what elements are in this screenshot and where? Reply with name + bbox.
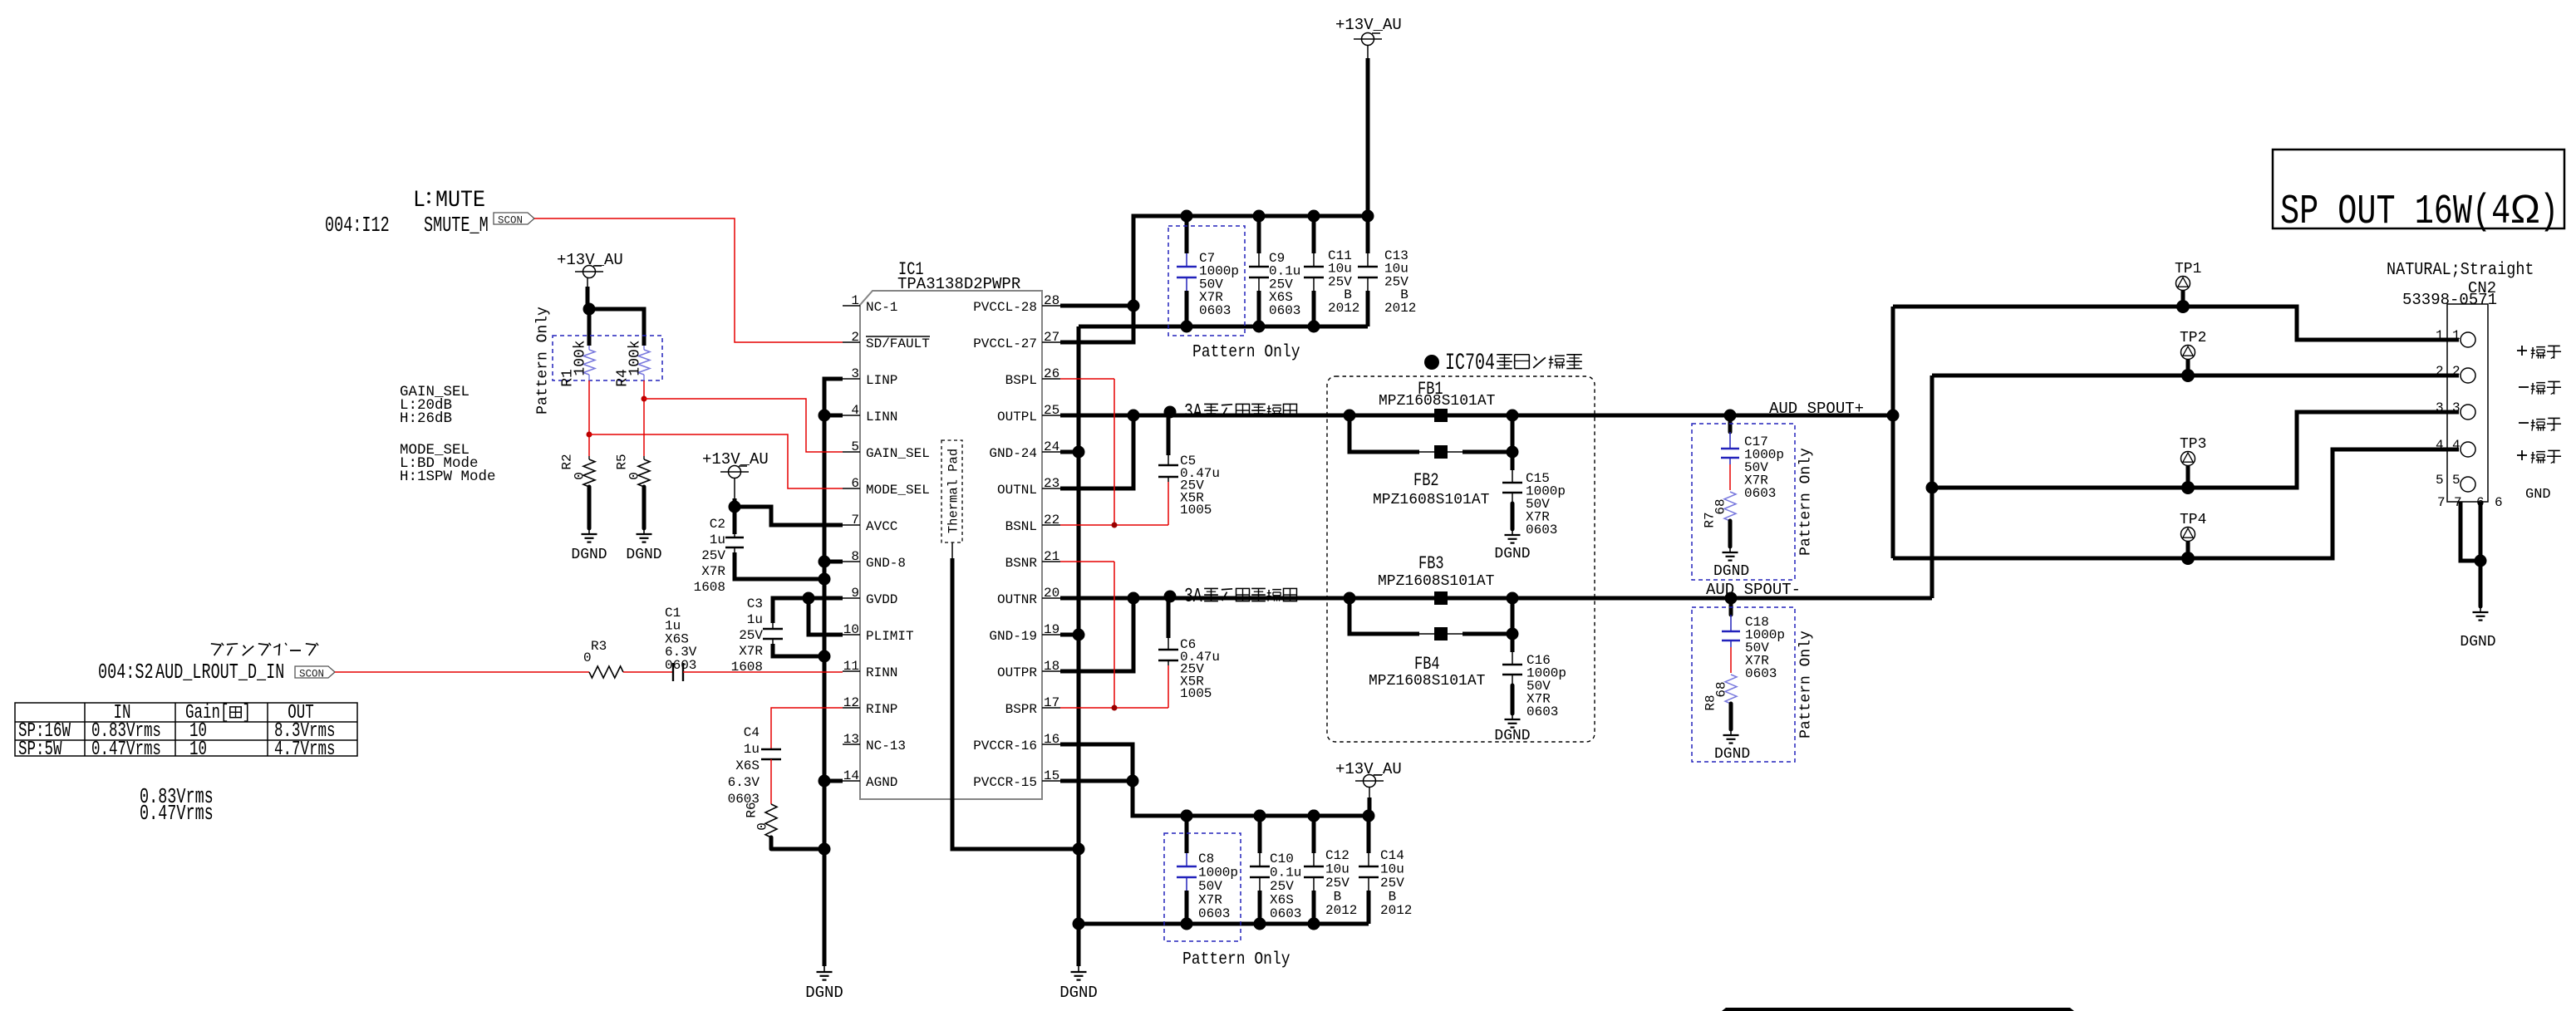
svg-text:GND-8: GND-8 [866, 556, 906, 571]
svg-text:TP4: TP4 [2180, 512, 2206, 528]
svg-text:7: 7 [851, 513, 859, 528]
svg-text:2012: 2012 [1328, 301, 1359, 316]
svg-text:13: 13 [843, 732, 859, 747]
svg-text:24: 24 [1044, 439, 1059, 454]
svg-text:+13V_AU: +13V_AU [702, 450, 769, 469]
svg-text:Pattern Only: Pattern Only [1797, 448, 1814, 556]
svg-text:5: 5 [2452, 473, 2460, 488]
svg-text:0.1u: 0.1u [1270, 866, 1301, 881]
svg-text:10: 10 [843, 622, 859, 637]
svg-text:C14: C14 [1380, 848, 1404, 863]
svg-text:AUD_LROUT_D_IN: AUD_LROUT_D_IN [155, 660, 284, 685]
svg-text:10u: 10u [1380, 862, 1404, 877]
svg-text:3A: 3A [1184, 586, 1202, 608]
svg-text:TP3: TP3 [2180, 436, 2206, 453]
svg-text:X6S: X6S [735, 758, 760, 773]
svg-text:0603: 0603 [1270, 906, 1301, 921]
svg-text:25: 25 [1044, 403, 1059, 418]
svg-text:8: 8 [851, 549, 859, 564]
svg-text:27: 27 [1044, 330, 1059, 345]
svg-text:OUTNR: OUTNR [997, 592, 1037, 607]
svg-text:PVCCL-27: PVCCL-27 [973, 336, 1037, 351]
svg-text:25V: 25V [701, 548, 725, 563]
svg-text:6.3V: 6.3V [728, 775, 760, 790]
svg-text:H:1SPW Mode: H:1SPW Mode [400, 469, 496, 485]
svg-text:1u: 1u [747, 612, 763, 627]
svg-text:DGND: DGND [1494, 546, 1530, 562]
svg-text:Ω: Ω [2510, 188, 2540, 232]
svg-text:AUD SPOUT+: AUD SPOUT+ [1769, 400, 1864, 418]
svg-text:C8: C8 [1198, 851, 1214, 866]
svg-text:GND: GND [2525, 487, 2551, 503]
svg-text:MPZ1608S101AT: MPZ1608S101AT [1378, 573, 1495, 590]
svg-text:2: 2 [2436, 364, 2444, 379]
svg-text:PVCCL-28: PVCCL-28 [973, 300, 1037, 315]
svg-text:1u: 1u [744, 742, 760, 757]
svg-text:OUTPL: OUTPL [997, 410, 1037, 425]
svg-text:18: 18 [1044, 659, 1059, 674]
svg-text:BSNL: BSNL [1005, 519, 1037, 534]
svg-text:C4: C4 [744, 725, 760, 740]
svg-text:14: 14 [843, 768, 859, 783]
svg-text:BSPL: BSPL [1005, 373, 1037, 388]
svg-text:0603: 0603 [1526, 704, 1558, 719]
svg-text:GAIN_SEL: GAIN_SEL [866, 446, 930, 461]
svg-text:C12: C12 [1325, 848, 1349, 863]
svg-text:+13V_AU: +13V_AU [1335, 760, 1402, 778]
svg-text:NC-1: NC-1 [866, 300, 897, 315]
svg-text:7: 7 [2437, 495, 2446, 510]
svg-text:11: 11 [843, 659, 859, 674]
svg-text:1000p: 1000p [1198, 866, 1238, 881]
svg-text:MODE_SEL: MODE_SEL [866, 483, 930, 498]
svg-text:C2: C2 [710, 517, 725, 532]
svg-text:16: 16 [1044, 732, 1059, 747]
svg-text:X7R: X7R [739, 644, 763, 659]
svg-text:19: 19 [1044, 622, 1059, 637]
svg-text:6: 6 [2495, 495, 2503, 510]
svg-text:12: 12 [843, 695, 859, 710]
svg-text:0603: 0603 [1269, 303, 1300, 318]
svg-text:0603: 0603 [1744, 486, 1776, 501]
svg-text:GVDD: GVDD [866, 592, 897, 607]
svg-text:OUTNL: OUTNL [997, 483, 1037, 498]
svg-text:25V: 25V [1380, 876, 1404, 891]
svg-text:AVCC: AVCC [866, 519, 897, 534]
svg-text:BSPR: BSPR [1005, 702, 1038, 717]
svg-text:GND-24: GND-24 [989, 446, 1037, 461]
svg-text:TP2: TP2 [2180, 330, 2206, 346]
svg-text:4: 4 [2436, 438, 2444, 453]
svg-text:25V: 25V [739, 628, 763, 643]
svg-text:1005: 1005 [1180, 686, 1212, 701]
svg-text:DGND: DGND [571, 547, 607, 563]
svg-text:17: 17 [1044, 695, 1059, 710]
svg-text:R3: R3 [591, 639, 607, 654]
svg-text:0603: 0603 [1526, 523, 1557, 537]
svg-text:Pattern Only: Pattern Only [1797, 631, 1814, 739]
svg-text:1608: 1608 [694, 580, 725, 595]
svg-text:NC-13: NC-13 [866, 739, 906, 753]
svg-text:25V: 25V [1325, 876, 1349, 891]
svg-text:21: 21 [1044, 549, 1059, 564]
svg-text:]: ] [243, 703, 251, 724]
svg-text:L: L [413, 187, 425, 213]
svg-text:2012: 2012 [1325, 903, 1357, 918]
svg-text:DGND: DGND [1714, 746, 1750, 763]
svg-text:4: 4 [2452, 438, 2460, 453]
svg-text:3: 3 [851, 366, 859, 381]
svg-text:2: 2 [851, 330, 859, 345]
svg-text:SP:5W: SP:5W [18, 739, 62, 761]
svg-text:5: 5 [851, 439, 859, 454]
svg-text:X6S: X6S [1270, 893, 1294, 908]
svg-text:004:S2: 004:S2 [98, 660, 154, 685]
svg-text:LINN: LINN [866, 410, 897, 425]
svg-text:0603: 0603 [1198, 906, 1230, 921]
svg-text:53398-0571: 53398-0571 [2402, 291, 2497, 309]
svg-text:004:I12: 004:I12 [325, 213, 390, 238]
svg-text:AUD SPOUT-: AUD SPOUT- [1706, 581, 1801, 599]
svg-text:B: B [1380, 890, 1396, 905]
svg-text:1: 1 [2436, 328, 2444, 343]
svg-text:10u: 10u [1325, 862, 1349, 877]
svg-text:5: 5 [2436, 473, 2444, 488]
svg-text:0: 0 [627, 472, 642, 480]
svg-text:0: 0 [755, 822, 770, 831]
svg-text:C10: C10 [1270, 851, 1294, 866]
svg-text:2: 2 [2452, 364, 2460, 379]
svg-text:DGND: DGND [2460, 634, 2495, 650]
svg-text:MUTE: MUTE [435, 187, 485, 213]
svg-text:C3: C3 [747, 596, 763, 611]
svg-text:DGND: DGND [1494, 728, 1530, 744]
svg-text:23: 23 [1044, 476, 1059, 491]
svg-text:15: 15 [1044, 768, 1059, 783]
svg-text:100k: 100k [572, 340, 588, 375]
svg-text:+13V_AU: +13V_AU [1335, 16, 1402, 34]
svg-text:3: 3 [2452, 400, 2460, 415]
svg-text:4: 4 [851, 403, 859, 418]
svg-text:B: B [1325, 890, 1341, 905]
svg-text:SCON: SCON [498, 215, 523, 227]
svg-text:PVCCR-15: PVCCR-15 [973, 775, 1037, 790]
svg-text:TP1: TP1 [2175, 261, 2201, 277]
svg-text:X7R: X7R [1198, 893, 1222, 908]
svg-text:MPZ1608S101AT: MPZ1608S101AT [1373, 492, 1490, 508]
svg-text:FB4: FB4 [1414, 654, 1440, 675]
svg-text:FB3: FB3 [1418, 553, 1444, 574]
svg-text:+13V_AU: +13V_AU [557, 251, 623, 269]
svg-text:20: 20 [1044, 586, 1059, 601]
svg-text:X7R: X7R [701, 564, 725, 579]
svg-text:0603: 0603 [665, 658, 696, 673]
svg-text:DGND: DGND [805, 984, 843, 1002]
svg-text:MPZ1608S101AT: MPZ1608S101AT [1369, 673, 1486, 690]
svg-text:TPA3138D2PWPR: TPA3138D2PWPR [897, 275, 1020, 293]
svg-text:Thermal Pad: Thermal Pad [946, 449, 961, 533]
svg-text:3A: 3A [1184, 401, 1202, 424]
svg-text:GND-19: GND-19 [989, 629, 1037, 644]
svg-text:6: 6 [851, 476, 859, 491]
svg-text:PLIMIT: PLIMIT [866, 629, 914, 644]
svg-text:RINP: RINP [866, 702, 897, 717]
svg-text:0: 0 [583, 650, 592, 665]
svg-text:10: 10 [189, 739, 207, 761]
svg-text:DGND: DGND [1713, 563, 1749, 580]
svg-text:Pattern Only: Pattern Only [534, 307, 551, 415]
svg-text:SCON: SCON [299, 669, 324, 680]
svg-text:25V: 25V [1270, 879, 1294, 894]
svg-text:Pattern Only: Pattern Only [1192, 341, 1300, 362]
svg-text:Pattern Only: Pattern Only [1182, 949, 1290, 969]
svg-text:): ) [2539, 189, 2559, 236]
svg-text:68: 68 [1714, 681, 1729, 697]
svg-text:1u: 1u [710, 532, 725, 547]
svg-text:BSNR: BSNR [1005, 556, 1038, 571]
svg-text:NATURAL;Straight: NATURAL;Straight [2387, 259, 2534, 280]
svg-text:100k: 100k [627, 340, 643, 375]
svg-text:0603: 0603 [728, 792, 760, 807]
svg-text:SMUTE_M: SMUTE_M [424, 213, 489, 238]
svg-text:LINP: LINP [866, 373, 897, 388]
svg-text:FB2: FB2 [1413, 470, 1439, 491]
svg-text:4.7Vrms: 4.7Vrms [274, 739, 335, 761]
svg-text:0: 0 [573, 472, 587, 480]
svg-text:0603: 0603 [1199, 303, 1231, 318]
svg-text:28: 28 [1044, 293, 1059, 308]
svg-text:0.47Vrms: 0.47Vrms [91, 739, 161, 761]
svg-text:9: 9 [851, 586, 859, 601]
svg-text:DGND: DGND [626, 547, 661, 563]
svg-text:50V: 50V [1198, 879, 1222, 894]
svg-text:IC704: IC704 [1445, 351, 1495, 376]
svg-text:2012: 2012 [1380, 903, 1412, 918]
svg-text:RINN: RINN [866, 665, 897, 680]
svg-text:1005: 1005 [1180, 503, 1212, 518]
svg-text:0.47Vrms: 0.47Vrms [140, 801, 214, 826]
svg-text:H:26dB: H:26dB [400, 410, 452, 427]
svg-text:SP OUT 16W(4: SP OUT 16W(4 [2280, 189, 2510, 236]
svg-text:68: 68 [1713, 498, 1728, 514]
svg-text:SD/FAULT: SD/FAULT [866, 336, 930, 351]
svg-text:R2: R2 [560, 454, 575, 469]
svg-text:PVCCR-16: PVCCR-16 [973, 739, 1037, 753]
svg-text:OUTPR: OUTPR [997, 665, 1037, 680]
svg-text:26: 26 [1044, 366, 1059, 381]
svg-text:0603: 0603 [1745, 666, 1777, 681]
svg-text:1: 1 [851, 293, 859, 308]
svg-text:DGND: DGND [1059, 984, 1098, 1002]
svg-text:AGND: AGND [866, 775, 897, 790]
svg-text:2012: 2012 [1384, 301, 1416, 316]
svg-text:1: 1 [2452, 328, 2460, 343]
svg-text:3: 3 [2436, 400, 2444, 415]
svg-text:22: 22 [1044, 513, 1059, 528]
svg-text:MPZ1608S101AT: MPZ1608S101AT [1379, 393, 1496, 410]
svg-text:R5: R5 [615, 454, 630, 469]
